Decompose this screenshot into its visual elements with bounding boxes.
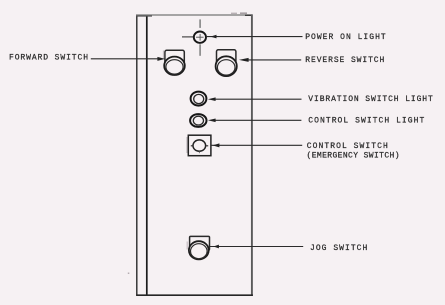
power light centerline (vertical dashes) (199, 19, 201, 28)
panel top edge (136, 14, 252, 16)
svg-text:POWER ON LIGHT: POWER ON LIGHT (305, 33, 386, 42)
panel left outer edge (136, 15, 138, 296)
forward switch body (165, 50, 184, 66)
vibration light callout line (215, 98, 302, 100)
svg-text:VIBRATION SWITCH LIGHT: VIBRATION SWITCH LIGHT (308, 95, 433, 104)
panel bottom edge (136, 294, 253, 296)
jog switch callout line (209, 246, 303, 248)
power light center cross (196, 36, 204, 38)
panel right edge (251, 14, 253, 295)
svg-text:JOG SWITCH: JOG SWITCH (310, 244, 367, 253)
control switch (emergency) body (188, 135, 211, 156)
forward switch knob (164, 57, 185, 75)
vibration switch light (191, 92, 207, 106)
jog switch knob (189, 241, 209, 259)
forward switch callout line (91, 58, 159, 60)
panel left inner edge (146, 15, 148, 296)
power on light callout line (206, 36, 302, 38)
svg-text:CONTROL SWITCH LIGHT: CONTROL SWITCH LIGHT (308, 116, 424, 125)
reverse switch knob (216, 56, 237, 76)
control switch button (193, 140, 206, 151)
power light centerline (horizontal left segment) (182, 36, 194, 38)
svg-text:(EMERGENCY SWITCH): (EMERGENCY SWITCH) (307, 152, 400, 161)
jog switch body (190, 236, 210, 250)
svg-text:FORWARD SWITCH: FORWARD SWITCH (9, 54, 88, 63)
control light callout line (215, 119, 302, 121)
reverse switch callout line (248, 59, 301, 61)
svg-text:REVERSE SWITCH: REVERSE SWITCH (305, 56, 384, 65)
reverse switch body (217, 50, 236, 67)
control switch callout line (211, 144, 302, 146)
power on light P1 (194, 32, 206, 43)
svg-text:CONTROL SWITCH: CONTROL SWITCH (307, 142, 388, 151)
scan artifacts (231, 13, 237, 14)
control switch light (190, 114, 206, 127)
